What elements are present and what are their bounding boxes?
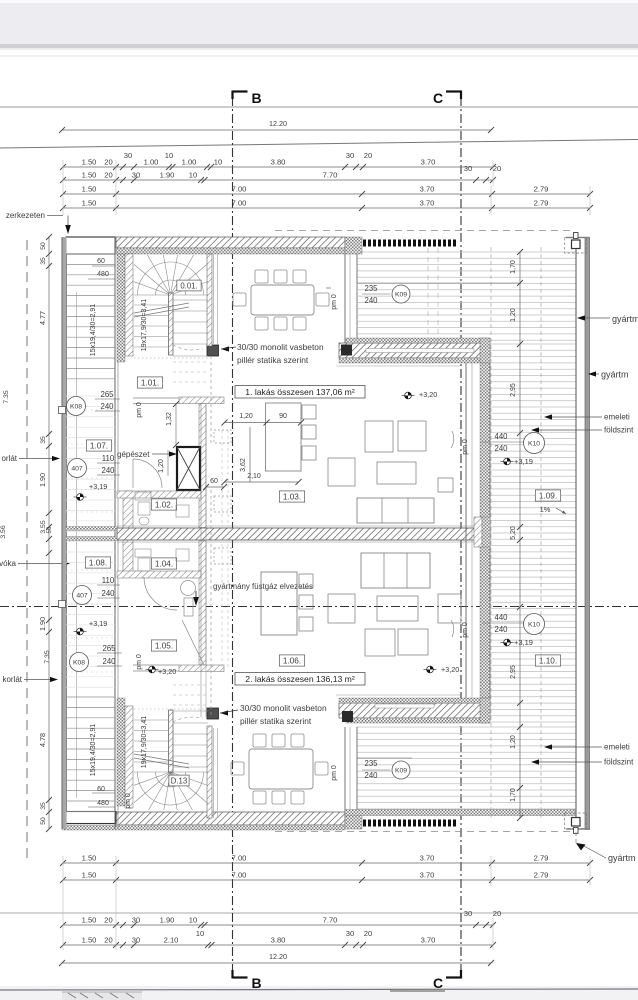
- svg-text:10: 10: [165, 151, 173, 160]
- svg-text:30: 30: [346, 929, 354, 938]
- svg-text:240: 240: [364, 296, 378, 305]
- svg-text:+3,19: +3,19: [514, 457, 533, 466]
- svg-text:30: 30: [132, 936, 140, 945]
- svg-text:3.70: 3.70: [420, 871, 435, 880]
- svg-text:7.00: 7.00: [232, 854, 247, 863]
- svg-text:1,20: 1,20: [510, 308, 517, 322]
- svg-text:1.90: 1.90: [38, 473, 47, 487]
- svg-text:pm 0: pm 0: [136, 654, 143, 670]
- svg-text:7.70: 7.70: [323, 171, 338, 180]
- svg-text:1.50: 1.50: [82, 854, 97, 863]
- svg-text:gyártm: gyártm: [612, 314, 638, 324]
- svg-text:2.79: 2.79: [534, 854, 549, 863]
- svg-text:7.00: 7.00: [232, 871, 247, 880]
- svg-text:1.05.: 1.05.: [155, 642, 173, 651]
- svg-text:30: 30: [346, 151, 354, 160]
- svg-text:480: 480: [97, 271, 109, 278]
- svg-text:+3,20: +3,20: [441, 665, 459, 674]
- svg-text:K09: K09: [395, 767, 407, 774]
- svg-text:3.70: 3.70: [420, 185, 435, 194]
- svg-text:1.50: 1.50: [82, 871, 97, 880]
- svg-text:7.35: 7.35: [3, 390, 10, 403]
- svg-text:földszint: földszint: [604, 758, 634, 767]
- svg-text:50: 50: [40, 817, 47, 825]
- svg-text:emeleti: emeleti: [604, 413, 630, 422]
- svg-text:1.90: 1.90: [160, 916, 175, 925]
- svg-text:+3,20: +3,20: [158, 667, 176, 676]
- svg-text:7.70: 7.70: [323, 916, 338, 925]
- svg-text:0.01.: 0.01.: [180, 282, 197, 291]
- svg-text:7.00: 7.00: [232, 199, 247, 208]
- svg-text:1.00: 1.00: [182, 158, 197, 167]
- svg-text:20: 20: [104, 158, 112, 167]
- svg-text:30: 30: [464, 164, 472, 173]
- svg-text:19x17,9/30=3,41: 19x17,9/30=3,41: [141, 299, 148, 351]
- svg-text:10: 10: [189, 171, 197, 180]
- svg-text:2. lakás összesen 136,13 m²: 2. lakás összesen 136,13 m²: [245, 674, 355, 684]
- svg-text:20: 20: [364, 151, 372, 160]
- svg-text:pm 0: pm 0: [462, 622, 469, 638]
- svg-text:3.80: 3.80: [271, 936, 286, 945]
- svg-text:1.50: 1.50: [82, 936, 97, 945]
- svg-text:30/30 monolit vasbeton: 30/30 monolit vasbeton: [240, 703, 327, 713]
- svg-text:zerkezeten: zerkezeten: [6, 211, 45, 220]
- svg-text:1.03.: 1.03.: [283, 493, 301, 502]
- svg-text:2,95: 2,95: [510, 383, 517, 397]
- svg-text:110: 110: [102, 454, 115, 463]
- svg-text:12.20: 12.20: [269, 119, 287, 128]
- svg-text:K10: K10: [528, 440, 540, 447]
- svg-text:pm 0: pm 0: [125, 793, 132, 809]
- svg-text:2.79: 2.79: [534, 871, 549, 880]
- svg-text:1.06.: 1.06.: [283, 657, 301, 666]
- svg-text:+3,20: +3,20: [419, 390, 437, 399]
- svg-text:B: B: [251, 90, 261, 106]
- svg-text:1,20: 1,20: [510, 735, 517, 749]
- svg-text:1. lakás összesen 137,06 m²: 1. lakás összesen 137,06 m²: [245, 387, 355, 397]
- svg-text:2.79: 2.79: [534, 199, 549, 208]
- svg-text:pm 0: pm 0: [331, 765, 338, 781]
- svg-text:50: 50: [40, 242, 47, 250]
- svg-text:407: 407: [71, 465, 83, 472]
- svg-text:20: 20: [364, 929, 372, 938]
- svg-text:19x17,9/30=3,41: 19x17,9/30=3,41: [141, 716, 148, 768]
- svg-text:50: 50: [46, 526, 53, 533]
- svg-text:emeleti: emeleti: [604, 743, 630, 752]
- svg-text:240: 240: [494, 444, 508, 453]
- svg-text:35: 35: [40, 436, 47, 444]
- svg-text:4.78: 4.78: [38, 733, 47, 747]
- svg-text:10: 10: [196, 929, 204, 938]
- svg-text:240: 240: [101, 466, 115, 475]
- svg-text:pm 0: pm 0: [462, 439, 469, 455]
- svg-text:1,70: 1,70: [510, 260, 517, 274]
- svg-text:20: 20: [493, 909, 501, 918]
- svg-text:30: 30: [132, 171, 140, 180]
- svg-text:1,20: 1,20: [239, 413, 253, 420]
- svg-text:3.70: 3.70: [420, 199, 435, 208]
- svg-text:15x19,4/30=2,91: 15x19,4/30=2,91: [90, 724, 97, 776]
- svg-text:90: 90: [279, 413, 287, 420]
- svg-text:pillér statika szerint: pillér statika szerint: [237, 355, 309, 365]
- svg-text:60: 60: [97, 258, 105, 265]
- svg-text:2.10: 2.10: [164, 936, 179, 945]
- svg-text:35: 35: [40, 257, 47, 265]
- svg-text:20: 20: [104, 916, 112, 925]
- svg-text:+3,19: +3,19: [89, 619, 107, 628]
- svg-text:240: 240: [364, 771, 378, 780]
- svg-text:K09: K09: [395, 291, 407, 298]
- svg-text:1,70: 1,70: [510, 788, 517, 802]
- svg-text:10: 10: [189, 916, 197, 925]
- svg-text:1,32: 1,32: [166, 412, 173, 426]
- svg-text:gyártmány füstgáz elvezetés: gyártmány füstgáz elvezetés: [213, 582, 313, 591]
- svg-text:B: B: [251, 975, 261, 991]
- svg-text:pm 0: pm 0: [136, 402, 143, 418]
- svg-text:gépészet: gépészet: [117, 450, 150, 459]
- svg-text:265: 265: [100, 390, 114, 399]
- svg-text:gyártm: gyártm: [608, 853, 636, 863]
- svg-text:265: 265: [102, 644, 116, 653]
- svg-text:1.07.: 1.07.: [90, 442, 108, 451]
- svg-text:C: C: [433, 90, 443, 106]
- svg-text:1.50: 1.50: [82, 199, 97, 208]
- svg-text:1.10.: 1.10.: [539, 657, 557, 666]
- svg-text:60: 60: [97, 786, 105, 793]
- svg-text:7.35: 7.35: [44, 650, 51, 663]
- svg-text:pm 0: pm 0: [331, 294, 338, 310]
- svg-text:440: 440: [494, 613, 508, 622]
- svg-text:K10: K10: [528, 621, 540, 628]
- svg-text:30: 30: [132, 916, 140, 925]
- svg-text:1.50: 1.50: [82, 916, 97, 925]
- svg-text:10: 10: [214, 158, 222, 167]
- svg-text:orlát: orlát: [1, 454, 17, 463]
- svg-text:235: 235: [364, 284, 378, 293]
- svg-text:C: C: [433, 975, 443, 991]
- svg-text:1.50: 1.50: [82, 171, 97, 180]
- svg-text:3.70: 3.70: [420, 854, 435, 863]
- svg-text:1.50: 1.50: [82, 158, 97, 167]
- svg-text:2,95: 2,95: [510, 665, 517, 679]
- svg-text:240: 240: [100, 402, 114, 411]
- svg-text:30/30 monolit vasbeton: 30/30 monolit vasbeton: [237, 342, 324, 352]
- svg-text:20: 20: [104, 171, 112, 180]
- svg-text:D.13: D.13: [171, 777, 187, 786]
- svg-text:3,62: 3,62: [240, 458, 247, 472]
- svg-text:7.00: 7.00: [232, 185, 247, 194]
- svg-text:5,20: 5,20: [510, 526, 517, 540]
- svg-text:407: 407: [76, 592, 88, 599]
- svg-text:12.20: 12.20: [269, 952, 287, 961]
- svg-text:+3,19: +3,19: [514, 638, 533, 647]
- svg-text:2.79: 2.79: [534, 185, 549, 194]
- svg-text:1,20: 1,20: [158, 459, 165, 473]
- svg-text:1.02.: 1.02.: [155, 501, 173, 510]
- svg-text:1.09.: 1.09.: [539, 492, 557, 501]
- svg-text:480: 480: [97, 800, 109, 807]
- svg-text:235: 235: [364, 759, 378, 768]
- svg-text:pillér statika szerint: pillér statika szerint: [240, 716, 312, 726]
- svg-text:3.56: 3.56: [0, 525, 7, 538]
- svg-text:3.80: 3.80: [271, 158, 286, 167]
- svg-text:15x19,4/30=2,91: 15x19,4/30=2,91: [90, 304, 97, 356]
- svg-text:20: 20: [104, 936, 112, 945]
- svg-text:korlát: korlát: [2, 675, 22, 684]
- svg-text:+3,19: +3,19: [89, 482, 107, 491]
- svg-text:1.90: 1.90: [160, 171, 175, 180]
- svg-text:2,10: 2,10: [247, 473, 261, 480]
- svg-text:60: 60: [210, 478, 218, 485]
- svg-text:1.90: 1.90: [38, 617, 47, 631]
- svg-text:110: 110: [102, 576, 115, 585]
- svg-text:K08: K08: [70, 403, 82, 410]
- svg-text:K08: K08: [73, 659, 85, 666]
- svg-text:1.01.: 1.01.: [141, 379, 159, 388]
- svg-text:20: 20: [493, 164, 501, 173]
- svg-text:1.50: 1.50: [82, 185, 97, 194]
- svg-text:30: 30: [464, 909, 472, 918]
- svg-text:vóka: vóka: [0, 559, 17, 568]
- svg-text:440: 440: [494, 432, 508, 441]
- svg-text:35: 35: [40, 802, 47, 810]
- svg-text:30: 30: [124, 151, 132, 160]
- svg-text:4.77: 4.77: [38, 311, 47, 325]
- svg-text:1.04.: 1.04.: [155, 560, 173, 569]
- svg-text:240: 240: [494, 625, 508, 634]
- svg-text:gyártm: gyártm: [601, 370, 629, 380]
- svg-text:földszint: földszint: [604, 426, 634, 435]
- svg-text:3.70: 3.70: [421, 158, 436, 167]
- svg-text:1.08.: 1.08.: [89, 559, 107, 568]
- svg-text:3.70: 3.70: [421, 936, 436, 945]
- svg-text:240: 240: [101, 589, 115, 598]
- svg-text:1.00: 1.00: [144, 158, 159, 167]
- svg-text:240: 240: [102, 657, 116, 666]
